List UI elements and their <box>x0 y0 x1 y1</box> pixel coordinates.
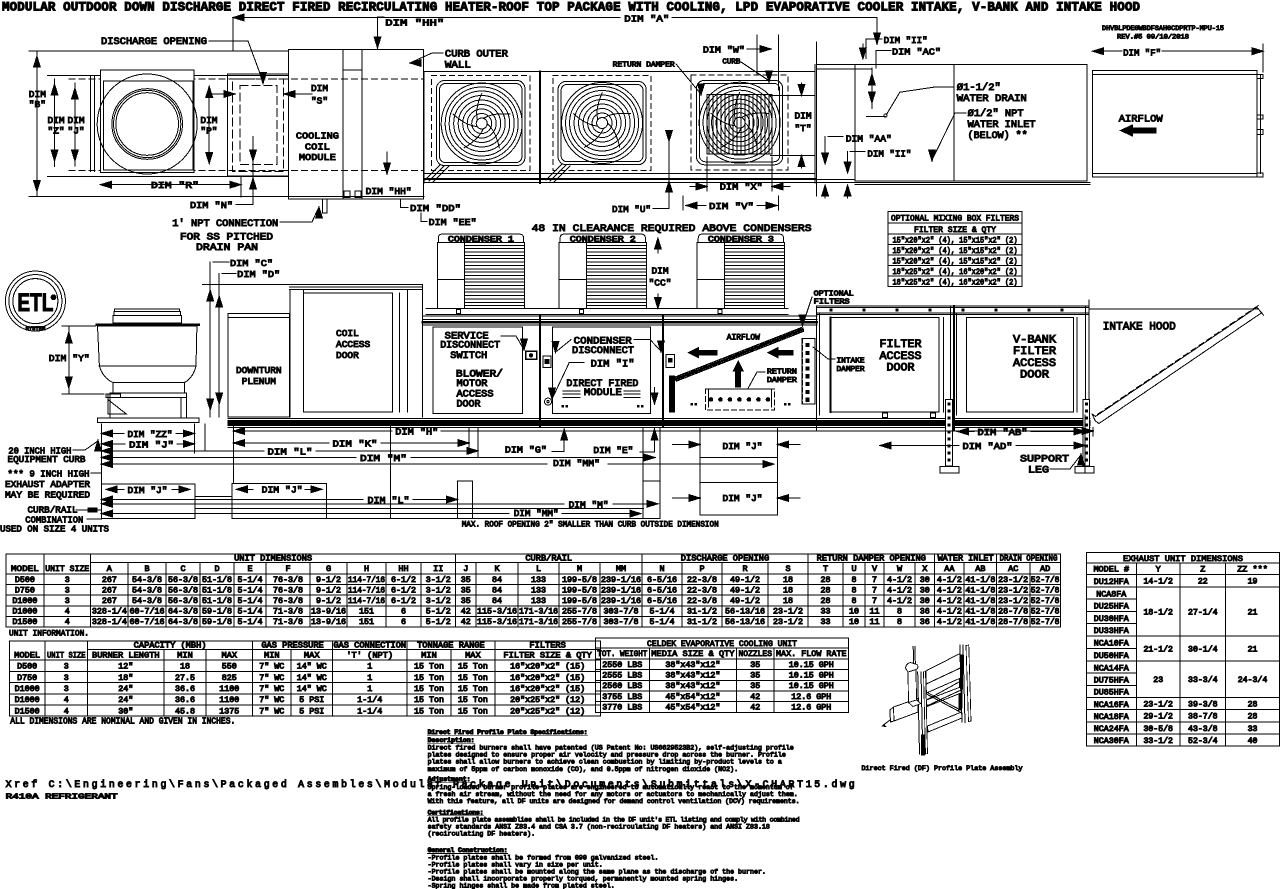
svg-text:7: 7 <box>872 576 877 585</box>
svg-text:AIRFLOW: AIRFLOW <box>1119 114 1164 126</box>
svg-text:15 Ton: 15 Ton <box>414 696 444 705</box>
svg-text:42: 42 <box>750 693 760 702</box>
svg-text:"Z": "Z" <box>48 126 65 137</box>
spec text block <box>428 729 800 889</box>
dim F <box>1093 44 1264 72</box>
svg-text:28: 28 <box>821 576 831 585</box>
svg-text:AC: AC <box>1008 564 1018 574</box>
svg-text:22: 22 <box>1198 578 1208 587</box>
svg-text:18-1/2: 18-1/2 <box>1143 607 1173 617</box>
svg-text:38"x43"x12": 38"x43"x12" <box>665 681 720 691</box>
svg-text:INTAKE: INTAKE <box>837 358 866 366</box>
svg-text:15"x20"x2" (4), 15"x15"x2" (2): 15"x20"x2" (4), 15"x15"x2" (2) <box>893 256 1018 266</box>
svg-text:Spring-loaded burner profile p: Spring-loaded burner profile plates are … <box>428 784 794 791</box>
svg-text:E: E <box>247 564 252 574</box>
svg-text:D: D <box>214 564 219 574</box>
svg-text:56-3/8: 56-3/8 <box>168 596 198 606</box>
svg-text:15 Ton: 15 Ton <box>458 707 488 716</box>
svg-text:7" WC: 7" WC <box>259 662 284 672</box>
svg-text:DIM "I": DIM "I" <box>591 359 635 371</box>
svg-text:DIM "G": DIM "G" <box>505 445 547 456</box>
svg-text:43-3/8: 43-3/8 <box>1188 724 1218 734</box>
curb dashed lines under module <box>281 79 423 170</box>
svg-text:USED ON SIZE 4 UNITS: USED ON SIZE 4 UNITS <box>0 524 109 535</box>
svg-text:DOOR: DOOR <box>457 400 481 411</box>
curb outer wall label <box>410 50 508 72</box>
svg-text:II: II <box>433 564 443 574</box>
svg-text:"P": "P" <box>200 126 217 137</box>
svg-text:MODULE: MODULE <box>584 388 622 399</box>
svg-text:24-3/4: 24-3/4 <box>1238 675 1268 685</box>
svg-text:Direct Fired (DF) Profile Plat: Direct Fired (DF) Profile Plate Assembly <box>862 765 1023 773</box>
svg-text:TONNAGE RANGE: TONNAGE RANGE <box>417 640 485 650</box>
discharge opening label <box>101 37 266 84</box>
svg-text:"T": "T" <box>794 123 811 134</box>
svg-text:DIM "L": DIM "L" <box>268 446 313 457</box>
dim II top <box>860 35 928 59</box>
svg-text:*** 9 INCH HIGH: *** 9 INCH HIGH <box>8 469 90 480</box>
svg-text:DIM: DIM <box>794 111 811 122</box>
svg-text:550: 550 <box>222 663 237 672</box>
svg-text:5-1/2: 5-1/2 <box>426 617 451 627</box>
svg-text:1100: 1100 <box>219 696 239 705</box>
svg-text:NCA24FA: NCA24FA <box>1094 725 1129 734</box>
plan return damper fan 3 <box>691 75 788 170</box>
svg-text:-Profile plates shall vary in: -Profile plates shall vary in size per u… <box>428 862 603 869</box>
dim AD <box>880 441 1085 452</box>
svg-text:15 Ton: 15 Ton <box>458 685 488 694</box>
svg-text:3: 3 <box>64 663 69 672</box>
svg-text:UNIT SIZE: UNIT SIZE <box>45 564 89 574</box>
svg-text:DIM: DIM <box>311 83 328 94</box>
svg-text:V-BANK: V-BANK <box>1013 334 1056 346</box>
svg-text:X: X <box>922 564 927 574</box>
condenser rail <box>426 308 788 314</box>
svg-text:DIM "W": DIM "W" <box>703 45 745 56</box>
svg-text:10.15 GPH: 10.15 GPH <box>789 661 834 670</box>
svg-text:MAY BE REQUIRED: MAY BE REQUIRED <box>5 490 90 501</box>
svg-text:Direct fired burners shall hav: Direct fired burners shall have patented… <box>428 744 794 751</box>
svg-text:DIM "V": DIM "V" <box>709 201 754 212</box>
svg-text:MIN: MIN <box>264 650 280 660</box>
downturn plenum <box>228 313 289 416</box>
profile plate caption <box>862 765 1023 773</box>
svg-text:ETL: ETL <box>17 289 53 317</box>
svg-text:MAX: MAX <box>465 650 481 660</box>
svg-text:4-1/2: 4-1/2 <box>887 596 912 606</box>
svg-text:DOWNTURN: DOWNTURN <box>236 365 282 376</box>
svg-text:255-7/8: 255-7/8 <box>562 617 597 627</box>
drawing number <box>1102 25 1224 41</box>
svg-text:18"x25"x2" (4), 16"x20"x2" (2): 18"x25"x2" (4), 16"x20"x2" (2) <box>893 277 1018 287</box>
svg-text:33: 33 <box>1248 725 1258 734</box>
dim HH bottom <box>366 152 412 197</box>
svg-text:H: H <box>364 564 369 574</box>
cooling coil module <box>288 49 423 198</box>
svg-text:20"x25"x2" (12): 20"x25"x2" (12) <box>510 695 585 705</box>
plan left unit outline <box>29 51 424 197</box>
svg-text:"CC": "CC" <box>649 278 672 289</box>
svg-text:P: P <box>699 564 704 574</box>
dim MM2 <box>101 508 641 519</box>
svg-text:DIM "M": DIM "M" <box>360 453 407 464</box>
svg-text:24": 24" <box>118 695 133 705</box>
svg-text:171-3/16: 171-3/16 <box>519 607 558 617</box>
svg-text:DIM "C": DIM "C" <box>230 258 273 269</box>
direct fired section <box>545 316 675 426</box>
svg-text:19: 19 <box>1248 578 1258 587</box>
drain slashes fan2 <box>546 164 570 182</box>
svg-text:SWITCH: SWITCH <box>450 351 487 362</box>
svg-text:8: 8 <box>897 608 902 617</box>
unit top band <box>423 316 818 325</box>
svg-text:5-1/4: 5-1/4 <box>238 596 263 606</box>
svg-text:42: 42 <box>750 704 760 713</box>
return damper label plan <box>613 62 705 96</box>
svg-text:28: 28 <box>1248 713 1258 722</box>
svg-text:DIM "N": DIM "N" <box>190 200 233 211</box>
svg-text:FOR SS PITCHED: FOR SS PITCHED <box>180 233 273 244</box>
svg-text:ZZ ***: ZZ *** <box>1237 565 1268 575</box>
svg-text:41-1/8: 41-1/8 <box>965 617 995 627</box>
svg-text:9-1/2: 9-1/2 <box>316 575 341 585</box>
svg-text:39-3/8: 39-3/8 <box>1188 700 1218 710</box>
svg-text:CAPACITY (MBH): CAPACITY (MBH) <box>134 640 207 650</box>
svg-text:D750: D750 <box>15 586 35 595</box>
svg-text:36: 36 <box>920 618 930 627</box>
svg-text:DIM "K": DIM "K" <box>333 438 378 449</box>
svg-text:16"x20"x2" (15): 16"x20"x2" (15) <box>510 684 585 694</box>
dim AC <box>869 47 942 109</box>
svg-text:FILTER SIZE & QTY: FILTER SIZE & QTY <box>914 225 996 235</box>
svg-text:4-1/2: 4-1/2 <box>937 596 962 606</box>
svg-text:4-1/2: 4-1/2 <box>937 575 962 585</box>
svg-text:DIM "J": DIM "J" <box>723 441 763 452</box>
dim ZZ <box>101 429 194 440</box>
svg-text:52-7/8: 52-7/8 <box>1031 585 1060 595</box>
svg-text:MODEL: MODEL <box>14 650 40 660</box>
svg-text:MAX: MAX <box>304 650 320 660</box>
svg-text:30-5/8: 30-5/8 <box>1143 724 1173 734</box>
svg-text:DOOR: DOOR <box>887 363 915 375</box>
svg-text:DIM "H": DIM "H" <box>395 426 438 437</box>
svg-text:DU25HFA: DU25HFA <box>1094 603 1129 612</box>
svg-text:DAMPER: DAMPER <box>837 366 866 374</box>
svg-text:DU30HFA: DU30HFA <box>1094 615 1129 624</box>
svg-text:HH: HH <box>398 564 408 574</box>
svg-text:DIM "Y": DIM "Y" <box>49 353 90 364</box>
svg-text:56-3/8: 56-3/8 <box>168 585 198 595</box>
svg-text:R410A REFRIGERANT: R410A REFRIGERANT <box>6 794 119 802</box>
svg-text:EQUIPMENT CURB: EQUIPMENT CURB <box>8 454 86 465</box>
svg-text:MODULE: MODULE <box>299 152 336 163</box>
svg-text:4-1/2: 4-1/2 <box>887 585 912 595</box>
svg-text:GAS CONNECTION: GAS CONNECTION <box>333 640 406 650</box>
svg-text:RETURN: RETURN <box>767 369 797 377</box>
dim S <box>213 83 329 107</box>
dim J right2 <box>673 483 801 516</box>
svg-text:DIM "J": DIM "J" <box>128 485 168 496</box>
svg-text:35: 35 <box>750 661 760 670</box>
dim CC <box>649 238 672 309</box>
svg-text:133: 133 <box>531 586 546 595</box>
max roof note <box>462 519 719 529</box>
svg-text:76-3/8: 76-3/8 <box>273 575 303 585</box>
optional mixing box filters table <box>888 212 1022 288</box>
ETL logo <box>5 271 65 332</box>
svg-text:28: 28 <box>1248 701 1258 710</box>
svg-text:CURB: CURB <box>722 59 740 67</box>
svg-text:PLENUM: PLENUM <box>242 376 277 387</box>
svg-text:133: 133 <box>531 576 546 585</box>
svg-text:SUPPORT: SUPPORT <box>1020 455 1069 466</box>
svg-text:6: 6 <box>401 618 406 627</box>
svg-text:30: 30 <box>920 586 930 595</box>
svg-text:7" WC: 7" WC <box>259 673 284 683</box>
svg-text:23-1/2: 23-1/2 <box>773 617 803 627</box>
svg-text:114-7/16: 114-7/16 <box>348 596 385 606</box>
svg-text:COIL: COIL <box>305 142 330 153</box>
svg-text:38-7/8: 38-7/8 <box>1188 712 1218 722</box>
svg-text:CELDEK EVAPORATIVE COOLING UNI: CELDEK EVAPORATIVE COOLING UNIT <box>647 639 797 649</box>
svg-text:DIM "HH": DIM "HH" <box>385 18 444 29</box>
svg-text:COIL: COIL <box>336 328 359 339</box>
svg-text:3-1/2: 3-1/2 <box>426 575 451 585</box>
dim II lower <box>844 149 911 174</box>
svg-text:114-7/16: 114-7/16 <box>348 585 385 595</box>
svg-text:DRAIN OPENING: DRAIN OPENING <box>1000 553 1058 563</box>
svg-text:64-3/8: 64-3/8 <box>168 617 198 627</box>
svg-text:7: 7 <box>872 586 877 595</box>
svg-text:54-3/8: 54-3/8 <box>132 575 162 585</box>
svg-text:71-3/8: 71-3/8 <box>273 607 303 617</box>
curbrail rect 1 <box>101 484 195 518</box>
svg-text:DIM: DIM <box>651 266 668 277</box>
curbrail small rect a <box>458 481 473 519</box>
svg-text:30-1/4: 30-1/4 <box>1188 644 1218 654</box>
svg-text:MIN: MIN <box>177 650 193 660</box>
svg-text:8: 8 <box>852 586 857 595</box>
svg-text:CURB/RAIL: CURB/RAIL <box>525 553 572 563</box>
svg-text:Y: Y <box>1156 565 1161 575</box>
condenser 2 elevation <box>559 234 646 308</box>
svg-text:DRAIN PAN: DRAIN PAN <box>196 243 258 254</box>
svg-text:239-1/16: 239-1/16 <box>601 596 641 606</box>
svg-text:DIM "D": DIM "D" <box>237 269 280 280</box>
svg-text:D1000: D1000 <box>12 608 37 617</box>
svg-text:6: 6 <box>401 608 406 617</box>
svg-text:267: 267 <box>102 597 117 606</box>
svg-text:MAX. ROOF OPENING 2" SMALLER T: MAX. ROOF OPENING 2" SMALLER THAN CURB O… <box>462 519 719 529</box>
curbrail rect 2 <box>232 483 326 518</box>
svg-text:DIM "II": DIM "II" <box>884 35 928 46</box>
svg-text:FILTERS: FILTERS <box>814 299 851 307</box>
svg-text:ACCESS: ACCESS <box>336 339 371 350</box>
dim N <box>190 137 256 212</box>
svg-text:INTAKE HOOD: INTAKE HOOD <box>1103 322 1176 334</box>
svg-text:GAS PRESSURE: GAS PRESSURE <box>261 640 323 650</box>
svg-text:76-3/8: 76-3/8 <box>273 585 303 595</box>
plan exhaust fan circles <box>97 74 197 174</box>
svg-text:1100: 1100 <box>219 685 239 694</box>
intake hood plan box <box>1087 71 1263 177</box>
dim HH top <box>374 17 444 48</box>
svg-text:F: F <box>285 564 290 574</box>
svg-text:49-1/2: 49-1/2 <box>730 585 760 595</box>
water inlet label <box>929 108 1036 161</box>
bottom thick band <box>228 418 1090 427</box>
svg-text:60-7/16: 60-7/16 <box>130 617 165 627</box>
svg-text:28-7/8: 28-7/8 <box>998 617 1028 627</box>
svg-text:AB: AB <box>975 564 985 574</box>
svg-text:49-1/2: 49-1/2 <box>730 596 760 606</box>
plan exhaust fan box <box>100 70 194 173</box>
curbrail small rect b <box>643 481 660 519</box>
dim K <box>234 438 470 449</box>
svg-text:199-5/8: 199-5/8 <box>562 596 597 606</box>
svg-text:Ø1/2" NPT: Ø1/2" NPT <box>968 108 1024 120</box>
svg-text:UNIT DIMENSIONS: UNIT DIMENSIONS <box>234 553 312 563</box>
svg-text:MIN: MIN <box>421 650 437 660</box>
svg-text:18: 18 <box>180 663 190 672</box>
svg-text:AD: AD <box>1040 564 1050 574</box>
svg-text:DU33HFA: DU33HFA <box>1094 627 1129 636</box>
right roof <box>817 306 1089 315</box>
svg-text:5-1/4: 5-1/4 <box>650 617 675 627</box>
svg-text:REV.#5 09/10/2018: REV.#5 09/10/2018 <box>1117 34 1189 41</box>
svg-text:UNIT INFORMATION.: UNIT INFORMATION. <box>9 629 89 639</box>
svg-text:2560 LBS: 2560 LBS <box>602 682 642 691</box>
svg-text:38"x43"x12": 38"x43"x12" <box>665 660 720 670</box>
condenser section outline <box>424 65 1090 183</box>
svg-text:45"x54"x12": 45"x54"x12" <box>665 692 720 702</box>
svg-text:15 Ton: 15 Ton <box>414 685 444 694</box>
svg-text:59-1/8: 59-1/8 <box>202 607 232 617</box>
dim A <box>233 14 880 52</box>
dim R <box>100 176 241 197</box>
svg-text:35: 35 <box>461 586 471 595</box>
svg-text:84: 84 <box>492 586 502 595</box>
svg-text:54-3/8: 54-3/8 <box>132 596 162 606</box>
exhaust unit dimensions table <box>1086 553 1279 747</box>
svg-text:41-1/8: 41-1/8 <box>965 585 995 595</box>
svg-text:6-5/16: 6-5/16 <box>647 575 677 585</box>
intake hood elevation <box>1090 306 1264 424</box>
svg-text:133: 133 <box>531 597 546 606</box>
svg-text:15 Ton: 15 Ton <box>458 696 488 705</box>
svg-text:115-3/16: 115-3/16 <box>477 607 517 617</box>
svg-text:-Profile plates shall be forme: -Profile plates shall be formed from G90… <box>428 855 659 862</box>
svg-text:303-7/8: 303-7/8 <box>604 617 639 627</box>
svg-text:N: N <box>659 564 664 574</box>
svg-text:DOOR: DOOR <box>336 350 359 361</box>
svg-text:3755 LBS: 3755 LBS <box>602 693 642 702</box>
dim M2 <box>101 499 658 510</box>
svg-text:3-1/2: 3-1/2 <box>426 585 451 595</box>
svg-text:"B": "B" <box>29 99 46 110</box>
svg-text:AA: AA <box>944 564 955 574</box>
svg-text:5-1/4: 5-1/4 <box>650 607 675 617</box>
svg-text:24": 24" <box>118 684 133 694</box>
unit information label <box>9 629 89 639</box>
svg-text:9-1/2: 9-1/2 <box>316 585 341 595</box>
svg-text:64-3/8: 64-3/8 <box>168 607 198 617</box>
svg-text:114-7/16: 114-7/16 <box>348 575 385 585</box>
dim Y <box>49 326 104 394</box>
svg-text:33-1/2: 33-1/2 <box>1143 736 1173 746</box>
nominal dimensions note <box>10 717 235 727</box>
svg-text:35: 35 <box>750 672 760 681</box>
svg-text:15 Ton: 15 Ton <box>458 674 488 683</box>
svg-text:18: 18 <box>783 586 793 595</box>
svg-text:8: 8 <box>852 597 857 606</box>
svg-text:BURNER LENGTH: BURNER LENGTH <box>92 650 160 660</box>
svg-text:TOT. WEIGHT: TOT. WEIGHT <box>597 649 647 659</box>
svg-text:18"x25"x2" (4), 16"x20"x2" (2): 18"x25"x2" (4), 16"x20"x2" (2) <box>893 267 1018 277</box>
svg-text:Z: Z <box>1200 565 1205 575</box>
svg-text:199-5/8: 199-5/8 <box>562 575 597 585</box>
right wall <box>1086 300 1089 430</box>
svg-text:171-3/16: 171-3/16 <box>519 617 558 627</box>
svg-text:1: 1 <box>367 663 372 672</box>
svg-text:D1000: D1000 <box>12 597 37 606</box>
svg-text:OPTIONAL MIXING BOX FILTERS: OPTIONAL MIXING BOX FILTERS <box>891 214 1019 224</box>
refrigerant note <box>6 794 119 802</box>
svg-text:33-3/4: 33-3/4 <box>1188 675 1218 685</box>
svg-text:11: 11 <box>870 618 880 627</box>
svg-text:WATER DRAIN: WATER DRAIN <box>957 94 1027 105</box>
svg-text:NCA8FA: NCA8FA <box>1096 590 1126 599</box>
svg-text:MEDIA SIZE & QTY: MEDIA SIZE & QTY <box>651 649 734 659</box>
svg-text:9-1/2: 9-1/2 <box>316 596 341 606</box>
svg-text:1' NPT CONNECTION: 1' NPT CONNECTION <box>172 218 278 230</box>
svg-text:DIM "U": DIM "U" <box>612 204 651 215</box>
svg-text:41-1/8: 41-1/8 <box>965 575 995 585</box>
svg-text:7" WC: 7" WC <box>259 706 284 716</box>
svg-text:S: S <box>785 564 790 574</box>
svg-text:W: W <box>897 564 903 574</box>
svg-text:DIM "MM": DIM "MM" <box>553 458 600 469</box>
svg-text:NCA10FA: NCA10FA <box>1094 640 1129 649</box>
curb rail combination note <box>0 505 109 535</box>
svg-text:239-1/16: 239-1/16 <box>601 585 641 595</box>
svg-text:RETURN DAMPER OPENING: RETURN DAMPER OPENING <box>817 553 926 563</box>
svg-text:5 PSI: 5 PSI <box>299 696 324 705</box>
support leg label <box>1020 454 1084 477</box>
svg-text:60-7/16: 60-7/16 <box>130 607 165 617</box>
svg-text:2555 LBS: 2555 LBS <box>602 672 642 681</box>
exhaust fan elevation <box>97 309 199 423</box>
svg-text:30: 30 <box>920 576 930 585</box>
condenser 1 elevation <box>437 234 524 308</box>
svg-text:10.15 GPH: 10.15 GPH <box>789 682 834 691</box>
svg-text:B: B <box>144 564 149 574</box>
svg-text:DIM "AC": DIM "AC" <box>892 47 941 58</box>
svg-text:6-1/2: 6-1/2 <box>391 575 416 585</box>
svg-text:42: 42 <box>461 618 471 627</box>
dim C <box>207 258 273 417</box>
xref path text <box>6 779 855 790</box>
svg-text:DISCHARGE OPENING: DISCHARGE OPENING <box>101 37 207 48</box>
svg-text:3: 3 <box>64 685 69 694</box>
vbank wall <box>951 306 957 430</box>
svg-text:199-5/8: 199-5/8 <box>562 585 597 595</box>
airflow label plan <box>1119 114 1164 137</box>
svg-text:DIM "AD": DIM "AD" <box>963 441 1013 452</box>
discharge opening rects <box>227 74 288 176</box>
svg-text:plates designed to ensure prop: plates designed to ensure proper air vel… <box>428 751 786 758</box>
svg-text:825: 825 <box>222 674 237 683</box>
